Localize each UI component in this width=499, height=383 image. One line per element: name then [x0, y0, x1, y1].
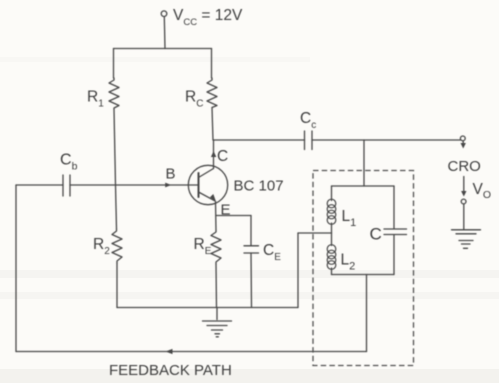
svg-text:CRO: CRO	[448, 158, 481, 175]
svg-text:BC 107: BC 107	[234, 178, 284, 195]
svg-text:B: B	[166, 166, 176, 183]
svg-text:E: E	[221, 202, 231, 219]
svg-text:C: C	[217, 148, 228, 165]
svg-text:FEEDBACK PATH: FEEDBACK PATH	[109, 362, 232, 379]
svg-text:C: C	[370, 225, 382, 244]
